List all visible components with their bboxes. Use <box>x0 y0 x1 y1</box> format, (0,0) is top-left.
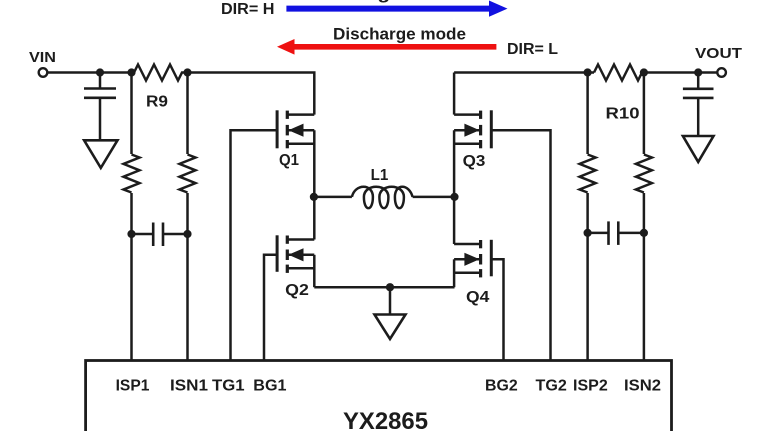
transistor Q4 <box>454 197 491 287</box>
node left cap junction A <box>127 230 135 238</box>
svg-text:TG2: TG2 <box>536 378 567 395</box>
IC U1 YX2865 box <box>86 361 672 431</box>
label L1 <box>371 167 389 184</box>
wire bottom rail <box>314 286 454 289</box>
label Q2 <box>285 282 309 299</box>
transistor Q3 <box>454 73 491 197</box>
charge mode label (cut off, only g descender visible) <box>330 0 463 3</box>
svg-text:ISN1: ISN1 <box>170 378 208 395</box>
svg-text:ISP2: ISP2 <box>573 378 608 395</box>
label Q3 <box>463 153 486 170</box>
label DIR= H <box>221 1 275 18</box>
label Q1 <box>279 152 299 169</box>
charge mode arrow (blue, right) <box>286 1 507 17</box>
resistor ISN1 leg <box>180 155 196 193</box>
svg-text:VOUT: VOUT <box>695 45 742 62</box>
svg-text:Q4: Q4 <box>466 289 490 306</box>
node R9 right junction <box>183 68 191 76</box>
node switch right <box>450 193 458 201</box>
label DIR= L <box>507 41 558 58</box>
pin label TG2 <box>536 378 567 395</box>
label VOUT <box>695 45 742 62</box>
pin label ISP2 <box>573 378 608 395</box>
svg-text:R9: R9 <box>146 94 168 111</box>
svg-text:BG1: BG1 <box>253 378 286 395</box>
svg-text:ISN2: ISN2 <box>624 378 661 395</box>
svg-text:BG2: BG2 <box>485 378 518 395</box>
capacitor left sense <box>132 223 188 247</box>
wire ISP1 leg upper <box>130 73 133 155</box>
wire ISN2 leg lower <box>643 193 646 361</box>
node ground junction <box>386 283 394 291</box>
wire ISN2 leg upper <box>643 73 646 155</box>
node right cap junction A <box>584 229 592 237</box>
wire ISN1 leg upper <box>186 73 189 155</box>
pin label BG2 <box>485 378 518 395</box>
wire VIN to R9 <box>47 71 134 74</box>
svg-text:L1: L1 <box>371 167 389 184</box>
wire R9 to Q1 drain <box>188 73 315 115</box>
svg-text:YX2865: YX2865 <box>343 408 428 431</box>
svg-text:DIR= L: DIR= L <box>507 41 558 58</box>
svg-text:Q1: Q1 <box>279 152 299 169</box>
inductor L1 <box>314 187 455 208</box>
node VOUT cap junction <box>694 68 702 76</box>
wire ISN1 leg lower <box>186 193 189 361</box>
ground center <box>375 287 406 339</box>
svg-text:Charge mode: Charge mode <box>330 0 463 3</box>
label VIN <box>29 49 56 66</box>
label Discharge mode <box>333 25 466 43</box>
node R10 right junction <box>640 68 648 76</box>
node VIN cap junction <box>96 68 104 76</box>
svg-text:TG1: TG1 <box>212 378 245 395</box>
ground VIN cap <box>84 140 117 168</box>
discharge mode arrow (red, left) <box>277 39 496 55</box>
svg-text:Discharge mode: Discharge mode <box>333 25 466 43</box>
resistor R9 <box>134 65 188 81</box>
node switch left <box>310 193 318 201</box>
node left cap junction B <box>183 230 191 238</box>
capacitor CIN <box>84 73 116 141</box>
wire ISP2 leg lower <box>586 193 589 361</box>
wire ISP1 leg lower <box>130 193 133 361</box>
node R10 left junction <box>584 68 592 76</box>
svg-text:ISP1: ISP1 <box>116 378 150 395</box>
transistor Q2 <box>277 197 314 287</box>
ground VOUT cap <box>683 136 714 162</box>
wire ISP2 leg upper <box>586 73 589 155</box>
pin label TG1 <box>212 378 245 395</box>
transistor Q1 <box>277 110 314 197</box>
resistor ISP1 leg <box>124 155 140 193</box>
label Q4 <box>466 289 490 306</box>
svg-text:VIN: VIN <box>29 49 56 66</box>
terminal VOUT <box>717 68 726 77</box>
pin label ISN1 <box>170 378 208 395</box>
capacitor right sense <box>588 221 644 245</box>
node R9 left junction <box>127 68 135 76</box>
svg-text:Q2: Q2 <box>285 282 309 299</box>
wire BG2 gate lead <box>491 259 503 360</box>
wire TG1 gate lead <box>231 130 278 360</box>
resistor ISP2 leg <box>580 155 596 193</box>
svg-text:R10: R10 <box>606 106 640 123</box>
pin label ISP1 <box>116 378 150 395</box>
node right cap junction B <box>640 229 648 237</box>
wire BG1 gate lead <box>264 255 277 361</box>
label YX2865 <box>343 408 428 431</box>
terminal VIN <box>39 68 48 77</box>
pin label BG1 <box>253 378 286 395</box>
resistor R10 <box>594 65 644 81</box>
svg-text:Q3: Q3 <box>463 153 486 170</box>
label R10 <box>606 106 640 123</box>
pin label ISN2 <box>624 378 661 395</box>
label R9 <box>146 94 168 111</box>
wire R10 to VOUT <box>644 71 718 74</box>
svg-text:DIR= H: DIR= H <box>221 1 275 18</box>
wire TG2 gate lead <box>491 130 550 360</box>
wire Q3 drain to R10 <box>454 71 594 74</box>
resistor ISN2 leg <box>636 155 652 193</box>
capacitor COUT <box>683 73 714 137</box>
